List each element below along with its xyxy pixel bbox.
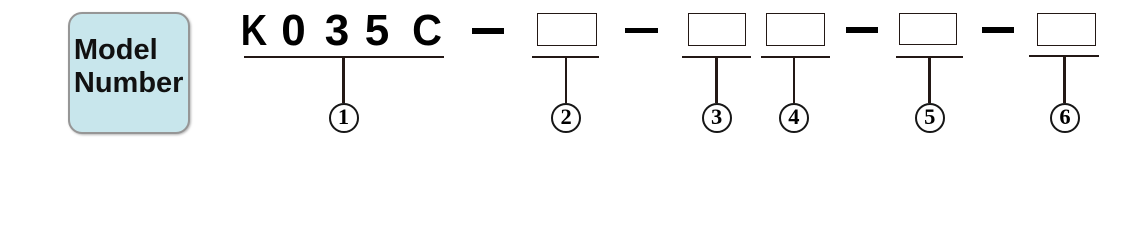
- circled number 5: [915, 103, 945, 133]
- circled number 1: [329, 103, 359, 133]
- underline under field 2: [532, 56, 600, 58]
- dash separator 3: [846, 27, 879, 33]
- field box 3: [688, 13, 747, 46]
- leader line 6: [1063, 57, 1065, 103]
- leader line 5: [928, 58, 930, 103]
- model number label box: [68, 12, 190, 134]
- dash separator 4: [982, 27, 1015, 33]
- dash separator 2: [625, 28, 659, 34]
- underline under field 5: [896, 56, 963, 58]
- model code text K 0 3 5 C: [235, 10, 272, 51]
- circled number 2: [551, 103, 581, 133]
- leader line 1: [342, 58, 344, 103]
- underline under field 4: [761, 56, 831, 58]
- underline under model code (field 1): [244, 56, 444, 58]
- leader line 3: [715, 58, 717, 103]
- field box 6: [1037, 13, 1096, 46]
- leader line 4: [793, 58, 795, 103]
- leader line 2: [565, 58, 567, 103]
- circled number 4: [779, 103, 809, 133]
- dash separator 1: [472, 28, 505, 34]
- field box 5: [899, 13, 957, 45]
- underline under field 3: [682, 56, 751, 58]
- circled number 3: [702, 103, 732, 133]
- field box 4: [766, 13, 825, 46]
- circled number 6: [1050, 103, 1080, 133]
- underline under field 6: [1029, 55, 1100, 57]
- field box 2: [537, 13, 598, 45]
- model number label text: [74, 34, 184, 101]
